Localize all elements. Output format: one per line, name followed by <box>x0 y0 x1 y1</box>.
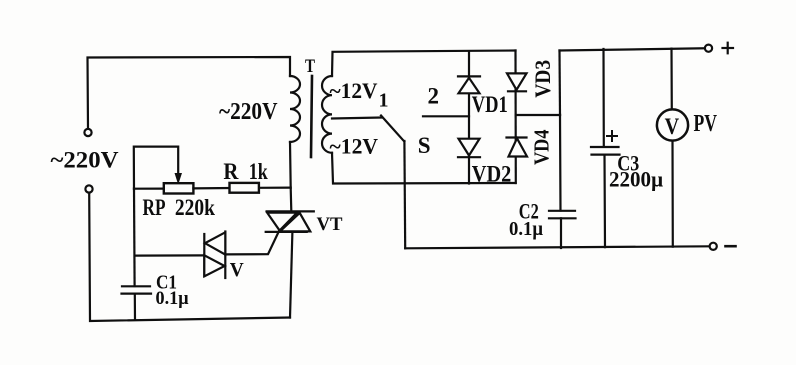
svg-text:R: R <box>223 159 238 184</box>
wire: contact 2 stub to bridge midpoint <box>423 115 469 117</box>
capacitor C2 <box>549 211 576 219</box>
resistor R body <box>230 183 259 193</box>
svg-text:220k: 220k <box>175 195 215 220</box>
svg-text:RP: RP <box>143 195 166 220</box>
svg-text:V: V <box>230 259 244 281</box>
voltmeter PV circle <box>657 109 688 140</box>
svg-text:PV: PV <box>694 111 718 137</box>
svg-text:~12V: ~12V <box>330 134 379 159</box>
svg-text:0.1μ: 0.1μ <box>509 218 543 240</box>
svg-text:VD3: VD3 <box>530 60 555 98</box>
svg-text:2200μ: 2200μ <box>609 167 663 192</box>
svg-text:T: T <box>305 56 315 77</box>
wire: trigger node to diac <box>135 254 205 256</box>
wire: trigger node vertical down to C1 <box>133 189 136 287</box>
wire: R to primary bottom node <box>259 187 291 189</box>
svg-text:VT: VT <box>317 214 343 235</box>
wire: node to RP left <box>134 188 164 190</box>
wire: diac to VT gate <box>225 231 279 254</box>
diode VD1 <box>458 76 480 93</box>
wire: voltmeter top lead <box>670 49 672 112</box>
terminal: upper AC input <box>84 129 91 136</box>
triac VT <box>266 211 314 232</box>
transformer core <box>311 76 312 157</box>
wire: RP to R <box>193 187 230 190</box>
wire: C3 top lead <box>602 49 604 147</box>
transformer T primary winding <box>290 76 300 142</box>
wire: secondary center tap to contact 1 <box>332 118 382 119</box>
label plus sign <box>723 43 734 54</box>
svg-text:2: 2 <box>428 84 440 109</box>
svg-text:V: V <box>665 114 680 139</box>
diode VD3 <box>507 73 527 91</box>
wire: primary bottom lead down to VT <box>290 142 291 211</box>
wire: DC minus bus <box>405 246 709 248</box>
potentiometer RP body <box>164 183 194 193</box>
wire: C1 bottom lead <box>134 294 136 320</box>
svg-text:~220V: ~220V <box>51 148 119 173</box>
svg-text:1k: 1k <box>249 159 268 184</box>
RP wiper arrowhead <box>175 174 181 184</box>
terminal: plus output <box>705 45 712 52</box>
wire: input top horizontal from upper terminal to primary top <box>88 57 291 129</box>
svg-text:~220V: ~220V <box>219 99 278 125</box>
svg-text:~12V: ~12V <box>330 78 378 103</box>
wire: riser up to plus rail <box>558 51 561 116</box>
svg-text:VD1: VD1 <box>472 92 508 117</box>
diac V <box>204 232 225 279</box>
label C3 polarity plus <box>607 131 617 141</box>
svg-text:1: 1 <box>379 90 389 112</box>
wire: RP wiper short loop with arrow <box>134 147 178 189</box>
wire: plus output rail <box>560 48 705 50</box>
svg-text:VD2: VD2 <box>472 161 512 186</box>
wire: bridge left vertical <box>468 52 470 184</box>
capacitor C3 <box>591 147 620 155</box>
wire: secondary bottom lead and bridge bottom wire <box>332 153 516 184</box>
wire: C3 bottom lead <box>603 155 606 248</box>
wire: C2 bottom lead <box>560 218 562 248</box>
wire: lower terminal down and bottom rail of primary circuit <box>89 193 290 321</box>
wire: VT bottom lead to primary bottom rail <box>290 232 292 318</box>
wire: bridge plus node to output riser <box>516 114 560 116</box>
svg-text:0.1μ: 0.1μ <box>156 289 189 309</box>
diode VD4 <box>507 138 528 157</box>
wire: riser down to C2 <box>559 115 562 211</box>
transformer secondary winding <box>322 76 332 153</box>
wire: bridge right vertical <box>514 51 516 184</box>
terminal: minus output <box>710 243 717 250</box>
diode VD2 <box>458 139 480 158</box>
switch S blade <box>381 116 404 142</box>
wire: switch pole down to DC minus bus <box>403 141 406 248</box>
wire: voltmeter bottom lead <box>671 141 673 247</box>
label minus sign <box>726 245 736 248</box>
wire: secondary top lead and bridge top wire <box>332 51 516 77</box>
terminal: lower AC input <box>85 185 92 192</box>
capacitor C1 <box>122 286 152 293</box>
svg-text:VD4: VD4 <box>530 129 554 165</box>
svg-text:S: S <box>418 133 431 158</box>
